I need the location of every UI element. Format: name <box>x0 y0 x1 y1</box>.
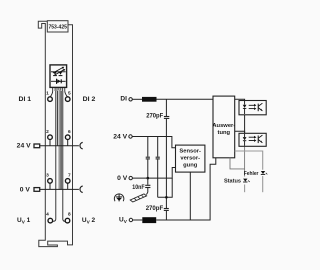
svg-text:6: 6 <box>68 129 71 135</box>
svg-text:10nF: 10nF <box>132 184 144 191</box>
svg-text:3: 3 <box>46 172 49 178</box>
svg-text:DI: DI <box>120 96 127 103</box>
svg-text:4: 4 <box>46 212 49 218</box>
svg-text:5: 5 <box>68 91 71 97</box>
svg-text:0 V: 0 V <box>20 186 31 193</box>
svg-text:versor-: versor- <box>180 156 200 162</box>
svg-text:0 V: 0 V <box>117 175 128 182</box>
svg-text:Auswer-: Auswer- <box>212 123 235 129</box>
svg-text:Sensor-: Sensor- <box>179 148 201 154</box>
svg-text:tung: tung <box>218 130 231 136</box>
svg-text:24 V: 24 V <box>17 143 32 150</box>
svg-text:24 V: 24 V <box>113 134 128 141</box>
svg-text:gung: gung <box>183 163 198 169</box>
svg-text:7: 7 <box>68 172 71 178</box>
svg-text:270pF: 270pF <box>146 205 164 212</box>
svg-text:8: 8 <box>68 212 71 218</box>
svg-text:Fehler: Fehler <box>244 171 260 177</box>
svg-text:270pF: 270pF <box>146 112 163 119</box>
svg-text:753-425: 753-425 <box>48 24 67 30</box>
svg-text:DI 1: DI 1 <box>19 96 32 103</box>
svg-text:Status: Status <box>224 179 241 185</box>
svg-text:1: 1 <box>46 91 49 97</box>
svg-text:2: 2 <box>46 129 49 135</box>
svg-text:DI 2: DI 2 <box>83 96 96 103</box>
